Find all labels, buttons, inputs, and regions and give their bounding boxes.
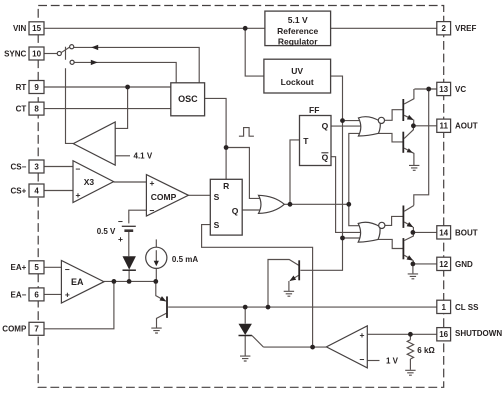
junction node CL diode <box>243 305 248 310</box>
wire A gate bubble output to Q3 base <box>384 110 402 121</box>
pin 6 <box>29 288 44 301</box>
wire shutdown comparator minus input <box>367 360 379 362</box>
wire Q6 emitter to GND node <box>412 260 414 264</box>
wire battery to diode D1 <box>128 232 130 256</box>
sync arrow in <box>91 45 98 50</box>
svg-text:SHUTDOWN: SHUTDOWN <box>455 329 502 338</box>
junction node EA out A <box>112 279 117 284</box>
wire PWM to A gate input <box>349 133 362 204</box>
svg-text:Lockout: Lockout <box>281 77 314 87</box>
svg-text:+: + <box>76 190 81 200</box>
svg-text:EA−: EA− <box>11 290 27 299</box>
wire VC rail down to B stage <box>414 89 429 205</box>
wire RT node to osc comparator input <box>115 87 127 128</box>
ground D2 <box>240 356 250 361</box>
svg-text:5.1 V: 5.1 V <box>288 15 308 25</box>
osc comparator triangle <box>73 122 115 165</box>
NOR gate A bubble <box>378 117 384 123</box>
wire Q5 collector <box>404 206 414 212</box>
pin 9 <box>29 81 44 94</box>
svg-text:5: 5 <box>34 263 39 272</box>
svg-text:−: − <box>360 354 365 364</box>
PWM comparator COMP <box>146 175 188 216</box>
svg-text:FF: FF <box>309 105 319 115</box>
wire diode D1 to EA rail <box>128 271 130 282</box>
pin 8 <box>29 102 44 115</box>
transistor Q5 bar <box>403 206 405 228</box>
UV lockout U2 <box>264 59 331 93</box>
svg-text:OSC: OSC <box>178 94 198 104</box>
wire COMP comparator to latch S <box>188 194 210 196</box>
svg-text:UV: UV <box>291 66 303 76</box>
svg-text:−: − <box>150 206 155 216</box>
junction node VIN/ref <box>243 26 248 31</box>
svg-text:COMP: COMP <box>151 192 177 202</box>
wire GND line <box>413 263 437 265</box>
junction node VC <box>426 87 431 92</box>
diode D2 <box>239 324 252 335</box>
wire diode D2 to ground <box>244 336 246 356</box>
svg-text:−: − <box>65 265 70 275</box>
wire D2 cathode to comparator output <box>252 336 264 348</box>
svg-text:Regulator: Regulator <box>278 37 318 47</box>
wire Q1 base CL SS rail <box>168 306 437 308</box>
switch upper contact <box>70 45 74 49</box>
sync arrow out <box>91 60 98 65</box>
wire UV lockout output bus <box>331 76 343 238</box>
svg-text:10: 10 <box>32 49 41 58</box>
svg-text:8: 8 <box>34 105 39 114</box>
wire latch Q to OR gate <box>242 209 262 211</box>
ground Q2 <box>284 291 294 296</box>
wire clock branch to OR gate <box>226 148 262 199</box>
svg-text:EA+: EA+ <box>11 263 27 272</box>
NOR gate B <box>358 222 380 242</box>
wire Q3 collector to VC <box>404 89 414 104</box>
svg-text:T: T <box>303 136 309 146</box>
svg-text:R: R <box>223 181 229 191</box>
svg-text:3: 3 <box>34 162 39 171</box>
pin 4 <box>29 184 44 197</box>
junction node shutdown <box>408 332 413 337</box>
wire Q3 emitter to AOUT node <box>413 120 415 126</box>
wire AOUT line <box>413 125 436 127</box>
svg-text:2: 2 <box>441 24 446 33</box>
wire UV tap to A gate <box>343 120 363 122</box>
svg-text:12: 12 <box>439 260 448 269</box>
svg-text:BOUT: BOUT <box>455 228 478 237</box>
wire B gate bubble output to Q5 base <box>385 216 403 225</box>
switch pole contact <box>57 51 61 55</box>
svg-text:11: 11 <box>439 122 448 131</box>
wire Q3 emitter <box>404 115 413 119</box>
ground Q1 <box>151 328 161 333</box>
wire shutdown comparator output line <box>264 346 327 348</box>
wire 4.1V stub <box>115 155 130 157</box>
NOR gate A <box>358 117 380 136</box>
svg-text:+: + <box>118 234 123 244</box>
pin 7 <box>29 322 44 335</box>
svg-text:0.5 V: 0.5 V <box>97 227 116 236</box>
wire current source to rail <box>155 268 157 281</box>
wire Q4 collector <box>404 126 413 139</box>
wire Q6 emitter <box>404 255 412 260</box>
switch lower contact <box>70 60 74 64</box>
svg-text:4.1 V: 4.1 V <box>134 151 153 160</box>
svg-text:S: S <box>214 192 220 202</box>
transistor Q2 bar <box>298 260 300 280</box>
wire Q6 collector <box>404 232 413 240</box>
svg-text:Q: Q <box>322 153 329 163</box>
svg-text:S: S <box>214 220 220 230</box>
wire Q1 emitter <box>156 281 166 301</box>
svg-text:AOUT: AOUT <box>455 122 478 131</box>
transistor Q3 bar <box>402 99 404 121</box>
NOR gate B bubble <box>379 222 385 228</box>
pin 5 <box>29 261 44 274</box>
IC boundary dashed border <box>38 6 444 388</box>
junction node latch S2 <box>310 345 315 350</box>
ground output stage <box>408 274 418 279</box>
wire OR output east <box>290 203 349 205</box>
junction node UV-A <box>340 118 345 123</box>
wire sync lower line to OSC <box>74 62 176 82</box>
wire Q2 collector <box>268 260 299 308</box>
wire RT to OSC <box>44 86 171 88</box>
current source 0.5mA circle <box>146 247 167 268</box>
junction node BOUT <box>411 230 416 235</box>
transistor Q4 bar <box>402 132 404 153</box>
wire Q2 emitter <box>290 275 299 280</box>
svg-text:9: 9 <box>34 83 39 92</box>
svg-text:14: 14 <box>439 228 448 237</box>
junction node CL Q2 <box>266 305 271 310</box>
svg-text:SYNC: SYNC <box>4 49 26 58</box>
svg-text:−: − <box>76 164 81 174</box>
wire VIN to reference regulator <box>44 27 265 29</box>
junction node OR out <box>288 202 293 207</box>
wire EA output rail <box>104 280 156 282</box>
transistor Q1 bar <box>166 296 168 318</box>
svg-text:CS−: CS− <box>11 162 27 171</box>
svg-text:+: + <box>65 289 70 299</box>
wire SYNC pin to switch pole <box>44 53 57 55</box>
wire UV tap to B gate <box>343 237 363 239</box>
wire X3 output to COMP <box>114 181 147 183</box>
wire CT to OSC <box>44 108 171 110</box>
shutdown comparator <box>326 326 367 368</box>
battery 0.5V plates <box>122 225 136 227</box>
wire switch to osc comparator output <box>66 47 74 144</box>
svg-text:CL SS: CL SS <box>455 303 479 312</box>
wire BOUT line <box>413 231 437 233</box>
svg-text:4: 4 <box>34 186 39 195</box>
pin 13 <box>437 82 451 95</box>
wire Q4 emitter <box>404 148 414 165</box>
svg-text:Q: Q <box>232 206 239 216</box>
svg-text:EA: EA <box>71 277 84 287</box>
pin 15 <box>29 22 44 35</box>
wire CS+ pin to X3 <box>44 190 73 192</box>
wire Q1 collector to ground <box>157 313 167 327</box>
toggle flip-flop FF <box>300 116 332 166</box>
svg-text:VREF: VREF <box>455 24 476 33</box>
diode D1 <box>123 256 136 269</box>
wire CL SS node to diode D2 <box>244 307 246 324</box>
svg-text:COMP: COMP <box>2 325 27 334</box>
resistor R1 6k <box>407 340 413 359</box>
pin 2 <box>437 22 451 35</box>
pin 1 <box>437 300 451 313</box>
junction node clock <box>224 145 229 150</box>
junction node UV-B <box>340 236 345 241</box>
svg-text:GND: GND <box>455 260 473 269</box>
current sense amp X3 <box>73 161 114 203</box>
error amp EA <box>61 261 104 304</box>
svg-text:Q: Q <box>322 121 329 131</box>
svg-text:VC: VC <box>455 85 466 94</box>
svg-text:0.5 mA: 0.5 mA <box>172 255 198 264</box>
svg-text:15: 15 <box>32 24 41 33</box>
svg-text:VIN: VIN <box>13 24 27 33</box>
wire COMP pin to EA output <box>44 281 114 328</box>
junction node GND <box>411 262 416 267</box>
wire GND node to ground <box>412 264 414 274</box>
pin 3 <box>29 160 44 173</box>
current source arrow <box>155 250 157 261</box>
wire Q2 emitter to ground <box>288 281 290 291</box>
wire CS- pin to X3 <box>44 166 73 168</box>
pin 16 <box>437 328 451 341</box>
wire FF Q to A gate <box>331 125 363 127</box>
junction node EA out C <box>153 279 158 284</box>
pin 10 <box>29 47 44 60</box>
svg-text:6: 6 <box>34 290 39 299</box>
junction node RT <box>125 85 130 90</box>
wire reference regulator to VREF <box>331 27 437 29</box>
wire PWM to B gate input <box>349 204 362 225</box>
svg-text:1 V: 1 V <box>386 356 399 365</box>
junction node AOUT <box>411 123 416 128</box>
ground R1 <box>405 370 415 375</box>
junction node EA out B <box>127 279 132 284</box>
svg-text:1: 1 <box>441 303 446 312</box>
wire COMP minus input chain <box>129 210 147 223</box>
PWM latch <box>210 179 242 235</box>
svg-text:X3: X3 <box>84 177 95 187</box>
ground Q4 <box>409 165 419 170</box>
wire current source stub <box>155 239 157 247</box>
svg-text:6 kΩ: 6 kΩ <box>417 346 435 355</box>
pin 11 <box>437 119 451 132</box>
wire resistor bottom <box>409 359 411 370</box>
wire latch lower S input <box>202 225 313 348</box>
clock pulse symbol <box>239 128 254 137</box>
pin 12 <box>437 257 451 270</box>
wire switch lever <box>61 47 70 53</box>
wire resistor top <box>409 334 411 340</box>
wire VIN node to UV lockout <box>245 28 264 76</box>
wire B gate lower output to Q6 base <box>378 239 403 248</box>
svg-text:+: + <box>360 330 365 340</box>
wire Q5 emitter <box>404 222 413 227</box>
wire A gate lower output to Q4 base <box>378 133 402 142</box>
wire shutdown comparator plus input <box>367 333 437 335</box>
svg-text:13: 13 <box>439 85 448 94</box>
svg-text:Reference: Reference <box>277 26 318 36</box>
wire OSC clock output to latch R <box>205 98 227 179</box>
wire UV node to Q2 base <box>300 238 342 270</box>
svg-text:RT: RT <box>16 83 27 92</box>
svg-text:7: 7 <box>34 325 39 334</box>
svg-text:+: + <box>150 178 155 188</box>
svg-text:16: 16 <box>439 330 448 339</box>
reference regulator U1 <box>265 11 331 46</box>
svg-text:−: − <box>118 216 123 226</box>
junction node PWM branch <box>346 202 351 207</box>
transistor Q6 bar <box>403 238 405 259</box>
svg-text:CS+: CS+ <box>11 186 27 195</box>
wire EA+ pin to EA <box>44 266 61 268</box>
wire VC line <box>414 88 436 90</box>
OR gate PWM <box>259 195 285 213</box>
svg-text:CT: CT <box>16 105 27 114</box>
wire sync upper line to OSC <box>74 47 199 82</box>
wire OR output to FF T input <box>284 140 299 204</box>
wire EA- pin to EA <box>44 293 61 295</box>
wire Q5 emitter to BOUT node <box>412 227 414 233</box>
oscillator OSC <box>171 83 205 116</box>
wire FF Qbar to B gate <box>331 157 363 233</box>
pin 14 <box>437 226 451 239</box>
